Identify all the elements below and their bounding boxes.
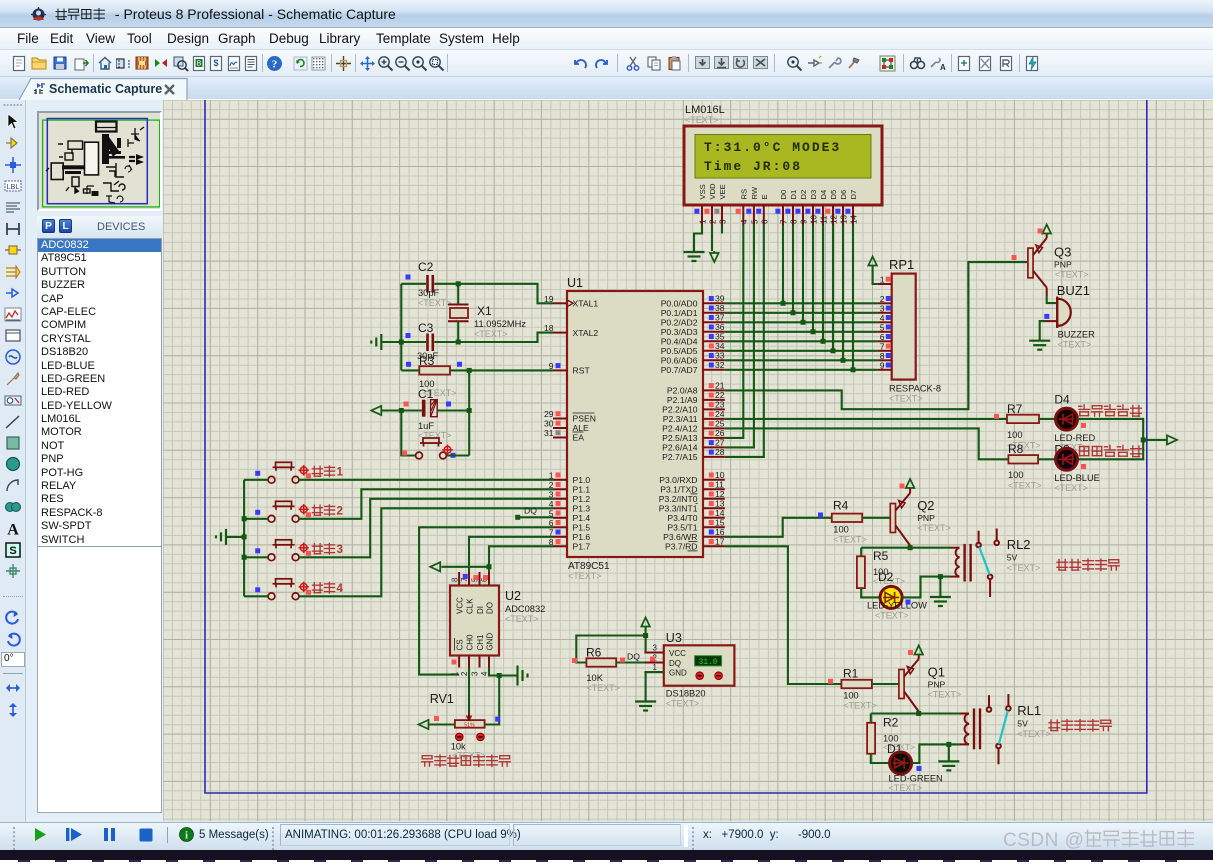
relay RL2 coil — [955, 548, 959, 577]
svg-text:U1: U1 — [567, 276, 583, 290]
svg-text:P0.1/AD1: P0.1/AD1 — [661, 308, 698, 318]
svg-text:8: 8 — [450, 578, 459, 582]
svg-text:11: 11 — [820, 215, 829, 224]
svg-text:5: 5 — [880, 322, 885, 332]
wire P1.5 to U2 CS — [419, 527, 553, 674]
svg-text:3: 3 — [653, 644, 658, 653]
wire U2 CH0 to RV1 wiper — [468, 668, 470, 714]
wire R8 to D3 — [1038, 458, 1055, 460]
svg-text:P0.4/AD4: P0.4/AD4 — [661, 337, 698, 347]
wire button2 left — [244, 518, 268, 520]
svg-text:P1.2: P1.2 — [573, 494, 591, 504]
pin 11 U1 P3.1/TXD — [703, 488, 725, 490]
svg-text:U3: U3 — [666, 631, 682, 645]
wire C1-button vertical — [401, 411, 415, 456]
pin 16 U1 P3.6/WR — [703, 536, 725, 538]
svg-text:<TEXT>: <TEXT> — [586, 683, 620, 693]
svg-text:1: 1 — [699, 219, 708, 224]
svg-text:P3.6/WR: P3.6/WR — [663, 532, 697, 542]
svg-text:31: 31 — [544, 428, 554, 438]
button RESET — [416, 438, 447, 459]
ground (crystal) — [371, 334, 381, 350]
label 水位模拟电位器 — [422, 755, 511, 766]
svg-text:8: 8 — [790, 219, 799, 224]
svg-text:P2.7/A15: P2.7/A15 — [662, 452, 698, 462]
node RL1 ground junction — [946, 742, 951, 747]
node C3/ground — [456, 340, 461, 345]
svg-text:DS18B20: DS18B20 — [666, 689, 706, 699]
pin 2 U1 P1.1 — [553, 488, 567, 490]
wire R5 to D2 — [861, 588, 880, 597]
wire P1.7 to U2 DO — [489, 546, 553, 572]
wire left vertical C2-R3 — [400, 284, 402, 371]
svg-text:100: 100 — [833, 525, 849, 535]
svg-text:7: 7 — [780, 219, 789, 224]
label 打磨继电器 — [1049, 720, 1111, 731]
crystal X1 — [457, 284, 459, 305]
svg-text:31.0: 31.0 — [699, 659, 718, 667]
pin 12 U1 P3.2/INT0 — [703, 498, 725, 500]
svg-text:5V: 5V — [1017, 719, 1028, 729]
svg-text:D4: D4 — [1054, 393, 1070, 407]
svg-text:U2: U2 — [505, 589, 521, 603]
pin 22 U1 P2.1/A9 — [703, 399, 725, 401]
svg-text:RS: RS — [739, 189, 748, 200]
label 缺水指示灯 — [1079, 405, 1142, 416]
pin 4 U1 P1.3 — [553, 507, 567, 509]
svg-text:<TEXT>: <TEXT> — [474, 329, 508, 339]
svg-text:30pF: 30pF — [418, 288, 440, 298]
svg-text:D4: D4 — [819, 190, 828, 200]
wire P0.3 to RP1 pin 5 — [725, 331, 878, 333]
svg-text:36: 36 — [715, 322, 725, 332]
transistor Q1 PNP — [899, 670, 904, 699]
watermark — [1003, 828, 1205, 852]
wire R3 row to RST — [401, 369, 419, 371]
status bar — [0, 822, 1213, 850]
terminal (U2 upper left) — [430, 562, 440, 571]
wire LCD D4 to P0.4 bus — [822, 225, 824, 341]
ground (BUZ1) — [1029, 341, 1050, 350]
wire button1 to P1.0 — [299, 479, 553, 481]
pin 1 U1 P1.0 — [553, 479, 567, 481]
power terminal (U3 VCC) — [641, 618, 650, 627]
svg-text:15: 15 — [715, 518, 725, 528]
pin 1 RP1 — [878, 283, 892, 285]
pin 33 U1 P0.6/AD6 — [703, 359, 725, 361]
svg-text:P0.6/AD6: P0.6/AD6 — [661, 356, 698, 366]
junction node D2 — [801, 320, 806, 325]
wire button1 left — [244, 479, 268, 481]
svg-text:11.0952MHz: 11.0952MHz — [474, 319, 526, 329]
svg-text:P2.2/A10: P2.2/A10 — [662, 405, 698, 415]
svg-text:D0: D0 — [779, 190, 788, 200]
wire P1.6 to U2 CLK — [469, 537, 553, 572]
knob U3 minus — [696, 672, 704, 680]
svg-text:C2: C2 — [418, 260, 434, 274]
svg-text:38: 38 — [715, 303, 725, 313]
pin 31 U1 EA — [553, 437, 567, 439]
svg-text:4: 4 — [337, 583, 344, 595]
svg-text:P0.2/AD2: P0.2/AD2 — [661, 318, 698, 328]
svg-text:P1.0: P1.0 — [573, 475, 591, 485]
svg-text:LED-BLUE: LED-BLUE — [1054, 473, 1099, 483]
svg-text:EA: EA — [573, 433, 585, 443]
pin 34 U1 P0.5/AD5 — [703, 350, 725, 352]
svg-text:P0.7/AD7: P0.7/AD7 — [661, 365, 698, 375]
svg-text:P3.0/RXD: P3.0/RXD — [659, 475, 697, 485]
svg-text:GND: GND — [486, 633, 495, 651]
junction node D7 — [851, 367, 856, 372]
pin 23 U1 P2.2/A10 — [703, 408, 725, 410]
svg-text:P2.6/A14: P2.6/A14 — [662, 443, 698, 453]
svg-text:<TEXT>: <TEXT> — [889, 394, 923, 404]
svg-text:P0.5/AD5: P0.5/AD5 — [661, 346, 698, 356]
button 模式2 — [268, 501, 299, 522]
transistor Q2 PNP — [890, 504, 895, 533]
wire P3.7 to R1 — [725, 546, 842, 684]
wire R2 to D1 — [871, 754, 890, 763]
svg-text:P2.0/A8: P2.0/A8 — [667, 386, 698, 396]
svg-text:28: 28 — [715, 447, 725, 457]
pin 18 U1 XTAL2 — [553, 332, 567, 334]
svg-text:$: $ — [213, 58, 218, 68]
svg-text:VCC: VCC — [456, 597, 465, 614]
pin 8 U1 P1.7 — [553, 545, 567, 547]
svg-text:DQ: DQ — [524, 506, 537, 516]
svg-text:100: 100 — [843, 691, 859, 701]
svg-text:<TEXT>: <TEXT> — [418, 298, 452, 308]
svg-text:D7: D7 — [849, 190, 858, 200]
svg-text:P1.1: P1.1 — [573, 485, 591, 495]
wire LCD VDD to power — [711, 225, 713, 251]
terminal output arrow — [1167, 435, 1177, 444]
terminal (C1 left) — [371, 406, 381, 415]
svg-text:2: 2 — [880, 294, 885, 304]
svg-text:GND: GND — [669, 669, 687, 678]
wire LCD VEE stub — [721, 225, 723, 234]
svg-text:P1.7: P1.7 — [573, 542, 591, 552]
svg-text:<TEXT>: <TEXT> — [1054, 483, 1088, 493]
relay RL2 lever — [979, 547, 989, 574]
svg-text:1: 1 — [450, 672, 459, 676]
svg-text:RESPACK-8: RESPACK-8 — [889, 384, 941, 394]
power terminal (LCD VDD) — [710, 253, 719, 262]
wire button2 to P1.1 — [299, 489, 553, 519]
svg-text:CH0: CH0 — [466, 634, 475, 651]
pin 9 U1 RST — [553, 369, 567, 371]
svg-text:S: S — [9, 545, 16, 557]
pin 24 U1 P2.3/A11 — [703, 418, 725, 420]
svg-text:D6: D6 — [839, 190, 848, 200]
svg-text:VCC: VCC — [669, 649, 686, 658]
node DQ (P1.4) — [518, 516, 553, 518]
pin 5 RP1 — [878, 331, 892, 333]
tab bar — [0, 77, 1213, 100]
wire D4 to output node — [1078, 419, 1144, 459]
svg-text:<TEXT>: <TEXT> — [1055, 270, 1089, 280]
svg-text:A: A — [7, 522, 19, 539]
svg-text:D2: D2 — [878, 570, 894, 584]
svg-text:D5: D5 — [829, 190, 838, 200]
wire button to RST vertical — [446, 454, 469, 456]
wire Q2 collector row — [909, 546, 911, 548]
svg-text:17: 17 — [715, 537, 725, 547]
svg-text:BUZZER: BUZZER — [1058, 330, 1095, 340]
svg-text:DO: DO — [486, 602, 495, 614]
resistor R5 100 (vertical) — [860, 548, 862, 557]
svg-text:37: 37 — [715, 313, 725, 323]
svg-text:DQ: DQ — [669, 659, 681, 668]
wire C1 row — [381, 409, 422, 411]
svg-text:32: 32 — [715, 360, 725, 370]
wire button common vertical — [243, 480, 245, 597]
label 溢出指示灯 — [1080, 445, 1142, 456]
wire terminal to DO — [441, 566, 489, 568]
svg-text:B: B — [197, 61, 202, 68]
svg-text:3: 3 — [471, 672, 480, 676]
junction node D6 — [841, 358, 846, 363]
wire LCD D0 to P0.0 bus — [782, 225, 784, 303]
pin 14 U1 P3.4/T0 — [703, 517, 725, 519]
wire P0.5 to RP1 pin 7 — [725, 350, 878, 352]
svg-text:R1: R1 — [843, 667, 859, 681]
wire R6 to U3 DQ — [616, 661, 664, 663]
junction node D3 — [811, 329, 816, 334]
wire button4 to P1.3 — [299, 508, 553, 596]
svg-text:VDD: VDD — [708, 183, 717, 200]
svg-text:6: 6 — [760, 219, 769, 224]
pin 3 U1 P1.2 — [553, 498, 567, 500]
wire P2.3 to R7 — [725, 418, 1007, 420]
svg-text:39: 39 — [715, 294, 725, 304]
ground (LCD VSS) — [684, 252, 705, 261]
svg-text:<TEXT>: <TEXT> — [505, 614, 539, 624]
svg-text:4: 4 — [740, 219, 749, 224]
svg-text:VEE: VEE — [718, 184, 727, 199]
svg-text:Q1: Q1 — [928, 665, 945, 680]
wire RV1 right vertical — [485, 676, 500, 725]
pin 15 U1 P3.5/T1 — [703, 526, 725, 528]
pin 19 U1 XTAL1 — [553, 302, 567, 304]
svg-text:LED-GREEN: LED-GREEN — [889, 774, 943, 784]
menu bar — [0, 28, 1213, 50]
node DO junction — [487, 564, 492, 569]
wire Q3 collector to buzzer — [1046, 288, 1048, 297]
pin 10 U1 P3.0/RXD — [703, 479, 725, 481]
pin 6 RP1 — [878, 340, 892, 342]
wire P0.4 to RP1 pin 6 — [725, 340, 878, 342]
wire C2 row — [401, 283, 426, 285]
svg-text:P1.3: P1.3 — [573, 504, 591, 514]
pin 6 U1 P1.5 — [553, 526, 567, 528]
button 模式3 — [268, 540, 299, 561]
pin 27 U1 P2.6/A14 — [703, 446, 725, 448]
svg-text:CS: CS — [456, 639, 465, 650]
ground (U3) — [635, 702, 656, 711]
svg-text:<TEXT>: <TEXT> — [928, 690, 962, 700]
relay RL1 coil — [965, 714, 969, 745]
pin 17 U1 P3.7/RD — [703, 545, 725, 547]
svg-text:5: 5 — [750, 219, 759, 224]
svg-text:21: 21 — [715, 381, 725, 391]
junction node D1 — [791, 310, 796, 315]
wire LCD E to U1 P2.7 — [725, 225, 764, 457]
ground (RL1) — [948, 744, 950, 761]
svg-text:24: 24 — [715, 409, 725, 419]
svg-text:XTAL1: XTAL1 — [573, 299, 599, 309]
wire P0.0 to RP1 pin 2 — [725, 302, 878, 304]
wire LCD D2 to P0.2 bus — [802, 225, 804, 322]
pin 39 U1 P0.0/AD0 — [703, 302, 725, 304]
svg-text:P2.5/A13: P2.5/A13 — [662, 433, 698, 443]
svg-text:R8: R8 — [1008, 442, 1024, 456]
node output junction — [1141, 437, 1146, 442]
pin 32 U1 P0.7/AD7 — [703, 369, 725, 371]
wire VCC to R6 — [576, 636, 645, 663]
pin 2 RP1 — [878, 302, 892, 304]
svg-text:P0.0/AD0: P0.0/AD0 — [661, 299, 698, 309]
svg-text:<TEXT>: <TEXT> — [568, 571, 602, 581]
svg-text:14: 14 — [850, 215, 859, 224]
wire P0.7 to RP1 pin 9 — [725, 369, 878, 371]
svg-text:RP1: RP1 — [889, 257, 914, 272]
svg-text:D3: D3 — [809, 190, 818, 200]
svg-text:<TEXT>: <TEXT> — [917, 523, 951, 533]
knob RV1 up — [477, 733, 485, 741]
svg-text:E: E — [760, 194, 769, 199]
pin 25 U1 P2.4/A12 — [703, 427, 725, 429]
svg-text:C3: C3 — [418, 321, 434, 335]
svg-text:ADC0832: ADC0832 — [505, 604, 545, 614]
svg-text:D2: D2 — [799, 190, 808, 200]
wire D2 to relay/ground — [902, 577, 950, 598]
svg-text:9: 9 — [800, 219, 809, 224]
knob RV1 down — [456, 733, 464, 741]
terminal (RV1 left) — [419, 720, 429, 729]
relay RL1 lever — [999, 711, 1008, 744]
svg-text:27: 27 — [715, 438, 725, 448]
junction node D0 — [781, 301, 786, 306]
wire U3 VCC — [646, 627, 664, 653]
wire LCD D6 to P0.6 bus — [842, 225, 844, 360]
svg-text:P2.4/A12: P2.4/A12 — [662, 424, 698, 434]
svg-text:12: 12 — [715, 489, 725, 499]
svg-text:LED-RED: LED-RED — [1054, 433, 1095, 443]
button 模式1 — [268, 462, 299, 483]
node Q2 collector — [908, 545, 913, 550]
svg-text:DI: DI — [476, 606, 485, 614]
power terminal (Q1 emitter) — [918, 655, 920, 660]
svg-text:16: 16 — [715, 527, 725, 537]
svg-text:RL1: RL1 — [1017, 703, 1041, 718]
svg-text:LED-YELLOW: LED-YELLOW — [867, 601, 927, 611]
svg-text:25: 25 — [715, 419, 725, 429]
svg-text:22: 22 — [715, 390, 725, 400]
svg-text:12: 12 — [830, 215, 839, 224]
svg-text:A: A — [940, 63, 946, 72]
svg-text:RL2: RL2 — [1007, 537, 1031, 552]
svg-text:P3.2/INT0: P3.2/INT0 — [659, 494, 698, 504]
svg-text:8: 8 — [880, 351, 885, 361]
label 模式4 — [312, 582, 334, 593]
wire LCD VSS to ground — [694, 225, 702, 252]
svg-text:2: 2 — [337, 505, 343, 517]
wire RP1 pin1 to VCC — [873, 266, 878, 285]
svg-text:R2: R2 — [883, 716, 899, 730]
svg-text:<TEXT>: <TEXT> — [843, 701, 877, 711]
svg-text:6: 6 — [880, 332, 885, 342]
svg-text:3: 3 — [880, 303, 885, 313]
svg-text:13: 13 — [715, 499, 725, 509]
svg-text:RST: RST — [573, 366, 591, 376]
svg-text:14: 14 — [715, 508, 725, 518]
wire LCD D7 to P0.7 bus — [852, 225, 854, 370]
svg-text:RV1: RV1 — [430, 692, 454, 706]
wire LCD D3 to P0.3 bus — [812, 225, 814, 332]
svg-text:PNP: PNP — [928, 680, 946, 690]
svg-text:CH1: CH1 — [476, 634, 485, 651]
svg-text:33: 33 — [715, 351, 725, 361]
wire U2 GND — [489, 668, 517, 676]
sheet border — [205, 100, 1147, 793]
svg-text:CLK: CLK — [466, 598, 475, 614]
svg-text:R5: R5 — [873, 549, 889, 563]
wire LCD D1 to P0.1 bus — [792, 225, 794, 313]
pin 21 U1 P2.0/A8 — [703, 389, 725, 391]
pin 35 U1 P0.4/AD4 — [703, 340, 725, 342]
wire button4 left — [244, 595, 268, 597]
wire P3.6 to R4 — [725, 518, 832, 537]
svg-text:<TEXT>: <TEXT> — [833, 535, 867, 545]
pin 28 U1 P2.7/A15 — [703, 456, 725, 458]
power terminal (Q2 emitter) — [909, 488, 911, 493]
svg-text:XTAL2: XTAL2 — [573, 328, 599, 338]
ground (U2) — [518, 666, 528, 686]
pin 38 U1 P0.1/AD1 — [703, 312, 725, 314]
svg-text:C1: C1 — [418, 387, 434, 401]
label 模式1 — [312, 466, 334, 477]
svg-text:P3.3/INT1: P3.3/INT1 — [659, 504, 698, 514]
wire P0.1 to RP1 pin 3 — [725, 312, 878, 314]
wire R4 to Q2 base — [862, 517, 890, 519]
svg-text:35: 35 — [715, 332, 725, 342]
svg-text:29: 29 — [544, 409, 554, 419]
label 加热继电器 — [1057, 559, 1119, 570]
svg-text:1: 1 — [337, 466, 344, 478]
node Q1 collector — [916, 711, 921, 716]
wire C3 row — [401, 341, 426, 343]
left mode toolbar — [0, 100, 26, 822]
svg-text:34: 34 — [715, 341, 725, 351]
wire to output terminal — [1143, 439, 1167, 441]
pin 37 U1 P0.2/AD2 — [703, 321, 725, 323]
pin 7 U1 P1.6 — [553, 536, 567, 538]
pin 36 U1 P0.3/AD3 — [703, 331, 725, 333]
title bar — [0, 0, 4, 47]
wire LCD RW to U1 P2.6 — [725, 225, 754, 447]
svg-text:2: 2 — [709, 219, 718, 224]
svg-text:<TEXT>: <TEXT> — [1007, 563, 1041, 573]
pin 13 U1 P3.3/INT1 — [703, 507, 725, 509]
resistor R2 100 (vertical) — [870, 714, 872, 723]
svg-text:P2.3/A11: P2.3/A11 — [663, 414, 698, 424]
node U2 GND junction — [497, 673, 502, 678]
power terminal (RP1 pin1) — [868, 257, 877, 266]
svg-text:10: 10 — [810, 215, 819, 224]
pin 3 RP1 — [878, 312, 892, 314]
wire BUZ1 to ground — [1040, 321, 1046, 340]
